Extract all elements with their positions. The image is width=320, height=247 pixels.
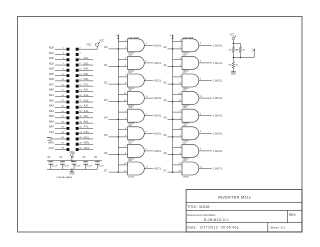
- connector J1 pin 21 (left): [49, 99, 69, 103]
- connector J1 pin 22 (right): [76, 99, 94, 103]
- svg-text:BA2: BA2: [49, 99, 54, 102]
- wire: U1C lower input, net D2: [104, 81, 127, 84]
- svg-text:D3: D3: [104, 99, 108, 102]
- svg-text:D5: D5: [104, 134, 108, 137]
- svg-text:D3L: D3L: [84, 62, 90, 65]
- resistor R1 1K: [229, 43, 239, 57]
- svg-text:1K: 1K: [235, 65, 238, 67]
- connector J1 pin 2 (right): [76, 43, 98, 50]
- svg-text:1 BA1L: 1 BA1L: [213, 61, 224, 65]
- svg-text:GDL: GDL: [84, 147, 90, 150]
- svg-text:AD0: AD0: [49, 47, 54, 50]
- wire: U1B output, net AD1L: [144, 61, 162, 65]
- wire: U1D lower input, net D3: [104, 99, 127, 102]
- svg-text:9: 9: [146, 78, 148, 80]
- svg-text:1K: 1K: [242, 49, 245, 51]
- svg-text:A2: A2: [163, 81, 167, 84]
- connector J1 pin 9 (left): [49, 68, 69, 72]
- svg-text:0.1uF: 0.1uF: [75, 165, 81, 167]
- svg-text:74S08: 74S08: [128, 176, 135, 178]
- svg-text:1 BA0L: 1 BA0L: [213, 43, 224, 47]
- svg-text:AD1L: AD1L: [154, 61, 162, 65]
- wire: U3D lower input, net A3: [163, 99, 182, 102]
- connector J1 pin 30 (right): [76, 120, 94, 124]
- wire: U3B upper input from bus: [173, 58, 182, 60]
- wire: U2A lower input, net D4: [104, 117, 127, 120]
- wire: U2D lower input, net D7: [104, 169, 127, 172]
- resistor R3 1K: [229, 58, 239, 72]
- svg-text:1 BA6L: 1 BA6L: [213, 149, 224, 153]
- svg-text:74S08: 74S08: [183, 176, 190, 178]
- AND gate U2A (74S08): [128, 106, 145, 125]
- svg-text:D1: D1: [104, 64, 108, 67]
- svg-text:A0L: A0L: [84, 89, 90, 92]
- svg-text:U4C: U4C: [183, 142, 188, 144]
- AND gate U3A (74S08): [182, 36, 199, 54]
- svg-text:0.1uF: 0.1uF: [87, 165, 93, 167]
- ground symbol at connector pin 37 wire: [47, 138, 55, 142]
- capacitor C3 0.1uF: [71, 157, 81, 169]
- svg-text:A3L: A3L: [84, 105, 90, 108]
- svg-text:D2L: D2L: [84, 57, 90, 60]
- svg-text:BA4: BA4: [49, 110, 54, 113]
- wire: U4B lower input, net A5: [163, 134, 182, 137]
- svg-text:D4L: D4L: [84, 68, 90, 71]
- svg-text:AD5: AD5: [49, 73, 54, 76]
- svg-text:AD2L: AD2L: [154, 79, 162, 83]
- svg-text:6: 6: [146, 61, 148, 63]
- connector J1 pin 28 (right): [76, 115, 94, 119]
- svg-text:C3: C3: [71, 157, 75, 159]
- svg-text:CSL: CSL: [84, 131, 90, 134]
- connector J1 pin 12 (right): [76, 73, 94, 77]
- svg-text:A7L: A7L: [84, 126, 90, 129]
- connector J1 pin 37 (left): [48, 142, 69, 146]
- svg-text:12: 12: [146, 166, 149, 168]
- svg-text:3: 3: [146, 114, 148, 116]
- wire: U2C output, net AD6L: [144, 149, 162, 153]
- wire: resistor top rail: [233, 43, 241, 45]
- svg-text:U3D: U3D: [183, 90, 188, 92]
- wire: U2B lower input, net D5: [104, 134, 127, 137]
- svg-text:D0: D0: [104, 46, 108, 49]
- svg-text:AD7L: AD7L: [154, 167, 162, 171]
- wire: U4D upper input from bus: [173, 163, 182, 165]
- svg-text:1 BA3L: 1 BA3L: [213, 96, 224, 100]
- connector J1 pin 29 (left): [49, 120, 69, 124]
- connector J1 pin 5 (left): [49, 57, 69, 61]
- connector J1 pin 15 (left): [49, 83, 69, 87]
- connector J1 pin 35 (left): [55, 137, 69, 140]
- connector J1 pin 24 (right): [76, 105, 94, 109]
- svg-text:VCC: VCC: [69, 151, 74, 154]
- title block: company line INVERTER M111: [218, 194, 252, 199]
- AND gate U3D (74S08): [182, 90, 199, 108]
- svg-text:R1: R1: [229, 49, 233, 51]
- svg-text:A4L: A4L: [84, 110, 90, 113]
- connector J1 pin 36 (right): [76, 136, 94, 140]
- connector J1 pin 8 (right): [76, 62, 94, 66]
- schematic note (ORCAD-MAIN): [57, 176, 73, 179]
- wire: resistor bottom rail to net arrow: [233, 57, 255, 59]
- connector J1 pin 7 (left): [49, 62, 69, 66]
- wire: U2C lower input, net D6: [104, 152, 127, 155]
- connector J1 pin 4 (right): [76, 53, 82, 56]
- svg-text:D7: D7: [104, 169, 108, 172]
- svg-text:BA1: BA1: [49, 94, 54, 97]
- svg-text:VCC: VCC: [230, 34, 235, 37]
- wire: U2D output, net AD7L: [144, 166, 162, 170]
- svg-text:D2: D2: [104, 81, 108, 84]
- wire: U1C output, net AD2L: [144, 78, 162, 82]
- svg-text:4: 4: [79, 53, 81, 55]
- svg-text:0.1uF: 0.1uF: [63, 165, 69, 167]
- wire: U3D output, net 1&#160;BA3L: [199, 96, 223, 100]
- svg-text:U4B: U4B: [183, 125, 188, 127]
- wire: capacitor top rail: [47, 160, 102, 162]
- title block frame: [186, 190, 302, 232]
- connector J1 pin 3 (left): [49, 52, 69, 56]
- title block: sheet cell: [270, 225, 285, 229]
- svg-text:12: 12: [200, 166, 203, 168]
- wire: U1B lower input, net D1: [104, 64, 127, 67]
- wire: capacitor bottom rail: [47, 169, 97, 171]
- svg-text:AD1: AD1: [49, 52, 54, 55]
- AND gate U1C (74S08): [128, 72, 145, 90]
- svg-text:D5L: D5L: [84, 73, 90, 76]
- ground symbol below R3: [231, 72, 236, 76]
- svg-text:12: 12: [146, 96, 149, 98]
- wire: U4C lower input, net A6: [163, 152, 182, 155]
- wire: U4B output, net 1&#160;BA5L: [199, 131, 223, 135]
- svg-text:3: 3: [200, 114, 202, 116]
- svg-text:A7: A7: [163, 169, 167, 172]
- wire: U2A upper input from bus: [118, 110, 127, 112]
- svg-text:TITLE: M111B: TITLE: M111B: [187, 205, 209, 209]
- svg-text:0.1uF: 0.1uF: [98, 165, 104, 167]
- svg-text:D7L: D7L: [84, 83, 90, 86]
- title block: document number: [187, 213, 229, 222]
- connector J1 pin 16 (right): [76, 83, 94, 87]
- svg-text:12: 12: [200, 96, 203, 98]
- svg-text:9: 9: [146, 149, 148, 151]
- svg-text:1 BA4L: 1 BA4L: [213, 114, 224, 118]
- svg-text:AD4: AD4: [49, 68, 54, 71]
- wire: U1B upper input from bus: [118, 58, 127, 60]
- svg-text:0.1uF: 0.1uF: [52, 165, 58, 167]
- AND gate U2B (74S08): [128, 125, 145, 143]
- svg-text:A0: A0: [163, 46, 167, 49]
- connector J1 pin 26 (right): [76, 110, 94, 114]
- svg-text:U3C: U3C: [183, 72, 188, 74]
- connector J1 pin 1 (left): [49, 47, 69, 51]
- svg-text:VCC: VCC: [86, 43, 91, 46]
- wire: U3B lower input, net A1: [163, 64, 182, 67]
- svg-text:CS1: CS1: [49, 131, 54, 134]
- wire: U3B output, net 1&#160;BA1L: [199, 61, 223, 65]
- wire: U4A upper input from bus: [173, 110, 182, 112]
- wire: U3C upper input from bus: [173, 75, 182, 77]
- svg-text:(ORCAD-MAIN): (ORCAD-MAIN): [57, 176, 73, 179]
- svg-text:6: 6: [200, 131, 202, 133]
- svg-text:9: 9: [200, 149, 202, 151]
- wire: U4C output, net 1&#160;BA6L: [199, 149, 223, 153]
- svg-text:2: 2: [170, 35, 172, 37]
- power VCC bubble above resistors: [230, 34, 236, 44]
- svg-text:2: 2: [115, 35, 117, 37]
- svg-text:U4A: U4A: [183, 106, 188, 109]
- wire: vertical pull-up bus column 2: [172, 41, 174, 172]
- capacitor C4 0.1uF: [82, 157, 92, 169]
- connector J1 pin 18 (right): [76, 89, 94, 93]
- net arrow (pull-up out): [251, 49, 255, 58]
- wire: U4D lower input, net A7: [163, 169, 182, 172]
- wire: U4C upper input from bus: [173, 146, 182, 148]
- svg-text:AD2: AD2: [49, 57, 54, 60]
- svg-text:BA5: BA5: [49, 115, 54, 118]
- wire: U2B output, net AD5L: [144, 131, 162, 135]
- connector J1 pin 10 (right): [76, 68, 94, 72]
- svg-text:Sheet: 1/1: Sheet: 1/1: [270, 225, 285, 229]
- wire: U3D upper input from bus: [173, 93, 182, 95]
- title block: date row: [187, 225, 239, 229]
- AND gate U3C (74S08): [182, 72, 199, 90]
- svg-text:A1L: A1L: [84, 94, 90, 97]
- connector J1 pin 34 (right): [76, 131, 94, 135]
- svg-text:6: 6: [146, 131, 148, 133]
- AND gate U2C (74S08): [128, 142, 145, 160]
- wire: U4A output, net 1&#160;BA4L: [199, 114, 223, 118]
- svg-text:AD3: AD3: [49, 62, 54, 65]
- wire: U4A lower input, net A4: [163, 117, 182, 120]
- svg-text:REV:: REV:: [289, 213, 296, 217]
- svg-text:1 BA7L: 1 BA7L: [213, 167, 224, 171]
- svg-text:Document Number:: Document Number:: [187, 213, 216, 217]
- svg-text:D4: D4: [104, 117, 108, 120]
- wire: U4B upper input from bus: [173, 128, 182, 130]
- AND gate U3B (74S08): [182, 54, 199, 72]
- wire: U1C upper input from bus: [118, 75, 127, 77]
- svg-text:AD4L: AD4L: [154, 114, 162, 118]
- power VCC bubble above capacitor rail: [69, 151, 74, 161]
- svg-text:BA3: BA3: [49, 105, 54, 108]
- AND gate U2D (74S08): [128, 160, 145, 178]
- svg-text:BA6: BA6: [49, 120, 54, 123]
- svg-text:AD3L: AD3L: [154, 96, 162, 100]
- svg-text:AD7: AD7: [49, 83, 54, 86]
- wire: U3C output, net 1&#160;BA2L: [199, 78, 223, 82]
- net arrow (pull-up) top of column 1: [115, 34, 119, 41]
- svg-text:1 BA2L: 1 BA2L: [213, 79, 224, 83]
- wire: U2D upper input from bus: [118, 163, 127, 165]
- wire: U3A output, net 1&#160;BA0L: [199, 43, 223, 47]
- capacitor C1 0.1uF: [48, 157, 58, 169]
- wire: U2B upper input from bus: [118, 128, 127, 130]
- svg-text:WRL: WRL: [84, 142, 91, 145]
- AND gate U4A (74S08): [182, 106, 199, 125]
- svg-text:A5: A5: [163, 134, 167, 137]
- wire: U3A upper input from bus: [173, 40, 182, 42]
- svg-text:U1B: U1B: [128, 54, 133, 56]
- svg-text:A4: A4: [163, 117, 167, 120]
- connector J1 pin 23 (left): [49, 105, 69, 109]
- svg-text:A2L: A2L: [84, 99, 90, 102]
- AND gate U4D (74S08): [182, 160, 199, 178]
- svg-text:6: 6: [200, 61, 202, 63]
- svg-text:A3: A3: [163, 99, 167, 102]
- AND gate U4B (74S08): [182, 125, 199, 143]
- AND gate U1D (74S08): [128, 90, 145, 108]
- title block: TITLE row: [187, 205, 209, 209]
- svg-text:RDL: RDL: [84, 136, 90, 139]
- svg-text:Date: 2/27/2013 09:06:46p: Date: 2/27/2013 09:06:46p: [187, 225, 239, 229]
- svg-text:GND: GND: [69, 173, 74, 175]
- wire: U2A output, net AD4L: [144, 114, 162, 118]
- wire: U1A output, net AD0L: [144, 43, 162, 47]
- svg-text:BA7: BA7: [49, 126, 54, 129]
- svg-text:U3A 74S08: U3A 74S08: [183, 36, 194, 39]
- svg-text:U1D: U1D: [128, 90, 133, 92]
- AND gate U4C (74S08): [182, 142, 199, 160]
- svg-text:VCC: VCC: [99, 39, 104, 42]
- svg-text:U1C: U1C: [128, 72, 133, 74]
- connector J1 pin 19 (left): [49, 94, 69, 98]
- connector J1 pin 17 (left): [49, 89, 69, 93]
- wire: U3C lower input, net A2: [163, 81, 182, 84]
- svg-text:D6L: D6L: [84, 78, 90, 81]
- svg-text:3: 3: [146, 43, 148, 45]
- svg-text:GND: GND: [47, 140, 52, 142]
- connector J1 pin 20 (right): [76, 94, 94, 98]
- title block: REV cell: [289, 213, 296, 217]
- ground symbol below capacitor rail: [69, 169, 74, 175]
- svg-text:U2A: U2A: [128, 106, 133, 109]
- connector J1 pin 14 (right): [76, 78, 94, 82]
- svg-text:3: 3: [200, 43, 202, 45]
- connector J1 pin 6 (right): [76, 57, 94, 61]
- svg-text:C2: C2: [59, 157, 63, 159]
- capacitor C2 0.1uF: [59, 157, 69, 169]
- svg-text:A5L: A5L: [84, 115, 90, 118]
- connector J1 pin 25 (left): [49, 110, 69, 114]
- resistor R2 1K: [236, 43, 246, 57]
- svg-text:R2: R2: [236, 49, 240, 51]
- svg-text:9: 9: [200, 78, 202, 80]
- svg-text:AD6: AD6: [49, 78, 54, 81]
- connector J1 pin 33 (left): [49, 131, 69, 135]
- wire: U1D output, net AD3L: [144, 96, 162, 100]
- svg-text:C5: C5: [94, 157, 98, 159]
- svg-text:AD6L: AD6L: [154, 149, 162, 153]
- svg-text:B-CB-M111-D-1: B-CB-M111-D-1: [204, 218, 229, 222]
- svg-text:A6: A6: [163, 152, 167, 155]
- connector J1 pin 39 (left): [49, 147, 70, 151]
- connector J1 pin 32 (right): [76, 126, 94, 130]
- svg-text:U4D: U4D: [183, 160, 188, 162]
- svg-text:U1A 74S08: U1A 74S08: [128, 36, 139, 39]
- AND gate U1A (74S08): [128, 36, 145, 54]
- svg-text:GND: GND: [231, 73, 236, 75]
- svg-text:1 BA5L: 1 BA5L: [213, 131, 224, 135]
- connector J1 pin 13 (left): [49, 78, 69, 82]
- connector J1 pin 11 (left): [49, 73, 69, 77]
- svg-text:C1: C1: [48, 157, 52, 159]
- AND gate U1B (74S08): [128, 54, 145, 72]
- border frame: [18, 17, 303, 233]
- svg-text:U2C: U2C: [128, 142, 133, 144]
- svg-text:AD5L: AD5L: [154, 131, 162, 135]
- wire: U1A upper input from bus: [118, 40, 127, 42]
- connector J1 pin 31 (left): [49, 126, 69, 130]
- connector J1 pin 40 (right): [76, 147, 94, 151]
- svg-text:U2D: U2D: [128, 160, 133, 162]
- svg-text:U2B: U2B: [128, 125, 133, 127]
- connector J1 pin 27 (left): [49, 115, 69, 119]
- svg-text:A6L: A6L: [84, 120, 90, 123]
- svg-text:WR1: WR1: [48, 142, 54, 145]
- power VCC bubble at connector pin 2: [96, 39, 105, 46]
- svg-text:AD0L: AD0L: [154, 43, 162, 47]
- wire: vertical pull-up bus column 1: [117, 41, 119, 172]
- svg-text:INVERTER M111: INVERTER M111: [218, 194, 252, 199]
- wire: U4D output, net 1&#160;BA7L: [199, 166, 223, 170]
- svg-text:A1: A1: [163, 64, 167, 67]
- wire: U1D upper input from bus: [118, 93, 127, 95]
- wire: U3A lower input, net A0: [163, 46, 182, 49]
- svg-text:D6: D6: [104, 152, 108, 155]
- connector J1 pin 38 (right): [76, 142, 94, 146]
- net arrow (pull-up) top of column 2: [170, 34, 174, 41]
- wire: U1A lower input, net D0: [104, 46, 127, 49]
- capacitor C5 0.1uF: [94, 157, 104, 169]
- svg-text:GN1: GN1: [49, 147, 55, 150]
- wire: U2C upper input from bus: [118, 146, 127, 148]
- svg-text:BA0: BA0: [49, 89, 54, 92]
- svg-text:U3B: U3B: [183, 54, 188, 56]
- svg-text:C4: C4: [82, 157, 86, 159]
- svg-text:5: 5: [251, 51, 253, 53]
